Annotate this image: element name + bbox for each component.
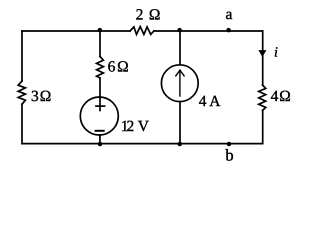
- svg-text:a: a: [226, 6, 233, 23]
- svg-text:i: i: [274, 46, 278, 61]
- svg-text:4: 4: [199, 93, 207, 110]
- svg-text:4: 4: [271, 88, 279, 105]
- svg-text:A: A: [209, 93, 221, 110]
- svg-text:2: 2: [136, 7, 144, 24]
- svg-text:3: 3: [31, 88, 39, 105]
- svg-text:Ω: Ω: [117, 59, 129, 76]
- svg-text:6: 6: [108, 59, 116, 76]
- svg-text:Ω: Ω: [40, 88, 52, 105]
- svg-text:V: V: [138, 118, 150, 135]
- svg-text:Ω: Ω: [279, 88, 291, 105]
- svg-text:b: b: [225, 146, 233, 165]
- svg-text:2: 2: [127, 118, 135, 135]
- svg-text:Ω: Ω: [149, 7, 161, 24]
